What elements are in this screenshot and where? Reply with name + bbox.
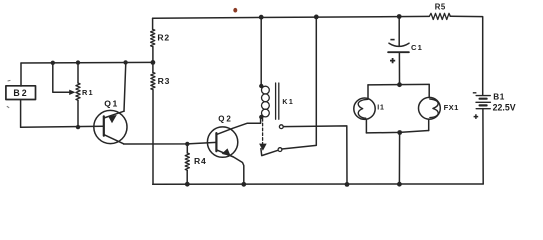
svg-text:B1: B1 xyxy=(493,92,505,101)
svg-text:Q1: Q1 xyxy=(104,98,119,108)
svg-text:R2: R2 xyxy=(157,32,170,42)
svg-text:R1: R1 xyxy=(82,88,94,97)
svg-text:R4: R4 xyxy=(194,156,207,166)
svg-text:22.5V: 22.5V xyxy=(493,103,516,113)
svg-text:FX1: FX1 xyxy=(444,103,460,112)
svg-text:R5: R5 xyxy=(435,3,446,12)
svg-text:R3: R3 xyxy=(158,76,171,86)
svg-text:I1: I1 xyxy=(377,105,384,112)
svg-text:K1: K1 xyxy=(282,99,294,106)
svg-text:Q2: Q2 xyxy=(218,114,233,123)
svg-text:C1: C1 xyxy=(411,43,423,52)
svg-text:B2: B2 xyxy=(13,88,28,98)
